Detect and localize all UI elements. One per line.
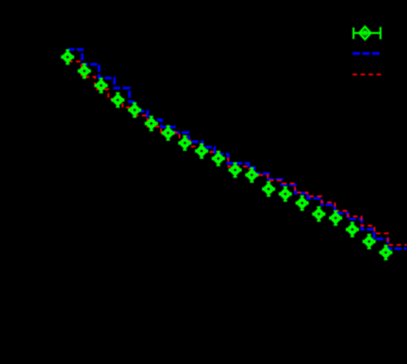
data point 5 x-error caps bbox=[129, 108, 141, 111]
data point 4 circle marker bbox=[116, 98, 120, 102]
data point 8 diamond marker bbox=[180, 138, 190, 148]
data point 17 diamond marker bbox=[331, 213, 341, 223]
data point 3 circle marker bbox=[99, 83, 103, 87]
data point 9 error bar bbox=[200, 144, 204, 158]
data point 6 circle marker bbox=[149, 121, 153, 125]
data point 4 x-error caps bbox=[112, 98, 124, 101]
data point 1 diamond marker bbox=[63, 52, 73, 62]
data point 13 diamond marker bbox=[264, 184, 274, 194]
data point 10 x-error caps bbox=[212, 157, 224, 160]
data point 3 error bar bbox=[99, 79, 103, 93]
data point 13 error bar bbox=[267, 182, 271, 196]
data point 14 x-error caps bbox=[279, 192, 291, 195]
data point 1 circle marker bbox=[66, 55, 70, 59]
data point 5 error bar bbox=[133, 103, 137, 117]
data point 15 diamond marker bbox=[297, 198, 307, 208]
data point 19 diamond marker bbox=[364, 237, 374, 247]
data point 14 diamond marker bbox=[280, 189, 290, 199]
data point 19 x-error caps bbox=[363, 240, 375, 243]
data point 6 diamond marker bbox=[146, 119, 156, 129]
data point 3 x-error caps bbox=[95, 84, 107, 87]
legend green diamond marker bbox=[359, 27, 370, 40]
data point 11 error bar bbox=[233, 163, 237, 177]
data point 10 circle marker bbox=[216, 156, 220, 160]
data point 18 x-error caps bbox=[346, 228, 358, 231]
data point 13 circle marker bbox=[267, 187, 271, 191]
data point 2 circle marker bbox=[82, 69, 86, 73]
data point 20 x-error caps bbox=[380, 251, 392, 254]
data point 9 circle marker bbox=[200, 149, 204, 153]
data point 20 diamond marker bbox=[381, 248, 391, 258]
data point 20 circle marker bbox=[384, 250, 388, 254]
data point 18 error bar bbox=[350, 223, 354, 237]
data point 7 x-error caps bbox=[162, 131, 174, 134]
data point 14 error bar bbox=[283, 187, 287, 201]
data point 16 circle marker bbox=[317, 212, 321, 216]
data point 15 error bar bbox=[300, 196, 304, 210]
data point 5 circle marker bbox=[133, 108, 137, 112]
data point 12 x-error caps bbox=[246, 173, 258, 176]
data point 2 diamond marker bbox=[79, 66, 89, 76]
data point 8 circle marker bbox=[183, 141, 187, 145]
data point 7 circle marker bbox=[166, 131, 170, 135]
data point 12 diamond marker bbox=[247, 170, 257, 180]
data point 14 circle marker bbox=[283, 192, 287, 196]
data point 17 x-error caps bbox=[330, 216, 342, 219]
data point 2 x-error caps bbox=[78, 69, 90, 72]
red dashed histogram line bbox=[68, 62, 407, 245]
data point 6 error bar bbox=[149, 117, 153, 131]
data point 19 circle marker bbox=[367, 239, 371, 243]
data point 16 diamond marker bbox=[314, 209, 324, 219]
data point 10 diamond marker bbox=[213, 154, 223, 164]
data point 17 error bar bbox=[334, 211, 338, 225]
data point 18 circle marker bbox=[350, 227, 354, 231]
data point 11 circle marker bbox=[233, 168, 237, 172]
data point 12 error bar bbox=[250, 168, 254, 182]
data point 19 error bar bbox=[367, 235, 371, 249]
data point 6 x-error caps bbox=[145, 122, 157, 125]
data point 3 diamond marker bbox=[96, 81, 106, 91]
legend green errorbar sample bbox=[354, 27, 381, 39]
data point 7 error bar bbox=[166, 126, 170, 140]
data point 15 x-error caps bbox=[296, 201, 308, 204]
data point 8 x-error caps bbox=[179, 141, 191, 144]
data point 16 error bar bbox=[317, 207, 321, 221]
data point 18 diamond marker bbox=[347, 225, 357, 235]
data point 4 diamond marker bbox=[113, 95, 123, 105]
data point 11 x-error caps bbox=[229, 168, 241, 171]
data point 17 circle marker bbox=[334, 216, 338, 220]
data point 13 x-error caps bbox=[263, 187, 275, 190]
data point 5 diamond marker bbox=[130, 105, 140, 115]
legend green circle marker bbox=[363, 31, 367, 35]
data point 12 circle marker bbox=[250, 173, 254, 177]
data point 16 x-error caps bbox=[313, 212, 325, 215]
data point 2 error bar bbox=[82, 64, 86, 78]
data point 7 diamond marker bbox=[163, 128, 173, 138]
data point 8 error bar bbox=[183, 136, 187, 150]
legend blue dashed sample bbox=[353, 52, 380, 55]
data point 10 error bar bbox=[216, 152, 220, 166]
data point 1 error bar bbox=[66, 50, 70, 64]
blue dashed histogram line bbox=[68, 49, 407, 248]
data point 11 diamond marker bbox=[230, 165, 240, 175]
legend red dashed sample bbox=[353, 74, 381, 76]
data point 15 circle marker bbox=[300, 201, 304, 205]
data point 1 x-error caps bbox=[62, 55, 74, 58]
data point 9 diamond marker bbox=[197, 146, 207, 156]
data point 9 x-error caps bbox=[196, 149, 208, 152]
data point 20 error bar bbox=[384, 246, 388, 260]
data point 4 error bar bbox=[116, 93, 120, 107]
